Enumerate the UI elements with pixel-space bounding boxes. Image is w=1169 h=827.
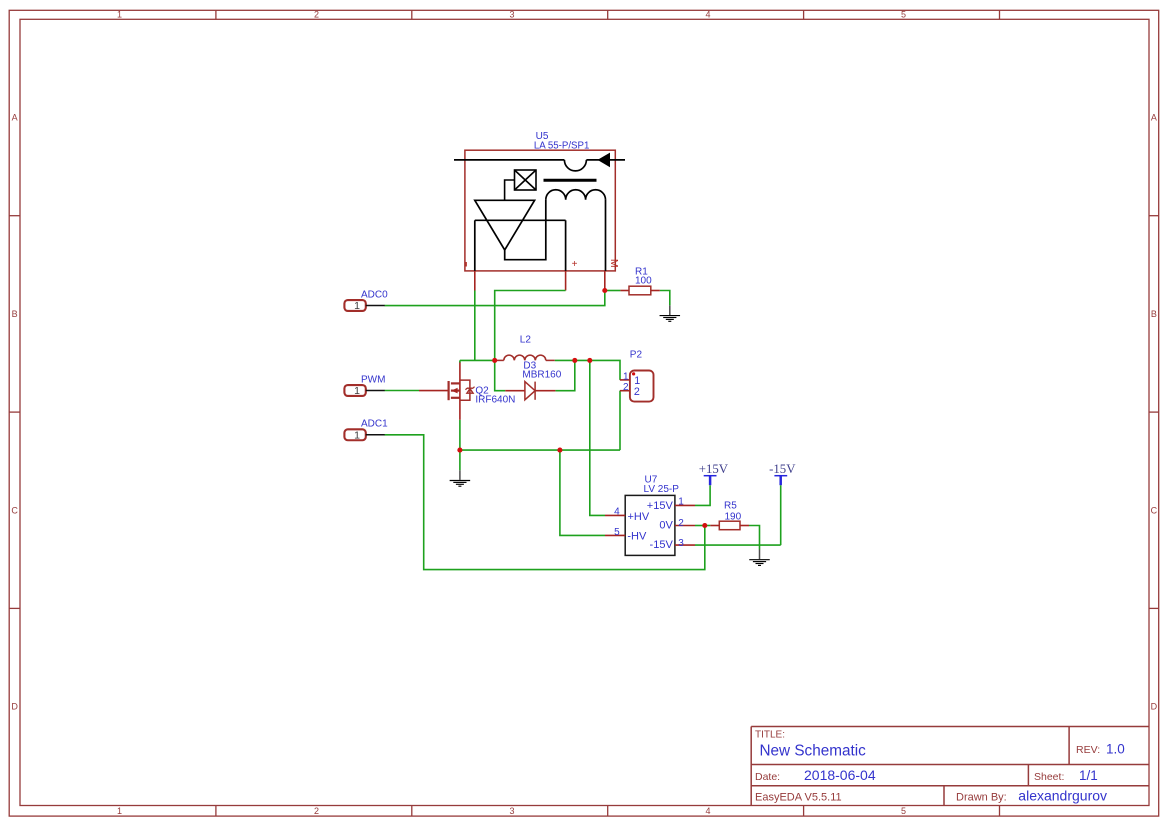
svg-text:R5: R5: [724, 501, 737, 512]
svg-text:4: 4: [705, 806, 710, 816]
svg-text:-HV: -HV: [627, 531, 647, 543]
svg-text:LV 25-P: LV 25-P: [644, 484, 680, 495]
svg-text:2: 2: [623, 382, 629, 393]
svg-text:IRF640N: IRF640N: [475, 395, 515, 406]
svg-text:1.0: 1.0: [1106, 742, 1125, 757]
svg-text:C: C: [11, 505, 18, 515]
svg-text:D: D: [11, 702, 18, 712]
svg-text:2: 2: [314, 806, 319, 816]
svg-text:1/1: 1/1: [1079, 768, 1098, 783]
svg-text:3: 3: [509, 806, 514, 816]
svg-text:+: +: [572, 259, 578, 270]
svg-text:PWM: PWM: [361, 374, 385, 385]
svg-text:100: 100: [635, 275, 652, 286]
svg-text:5: 5: [901, 806, 906, 816]
svg-text:1: 1: [354, 429, 360, 441]
svg-text:A: A: [1151, 113, 1157, 123]
svg-text:5: 5: [614, 527, 620, 538]
svg-text:4: 4: [705, 9, 710, 19]
svg-text:B: B: [12, 309, 18, 319]
svg-text:C: C: [1151, 505, 1158, 515]
svg-text:REV:: REV:: [1076, 744, 1100, 756]
svg-text:+15V: +15V: [699, 462, 729, 476]
svg-text:P2: P2: [630, 350, 643, 361]
svg-text:MBR160: MBR160: [522, 369, 561, 380]
svg-text:M: M: [608, 259, 620, 268]
svg-text:3: 3: [509, 9, 514, 19]
svg-text:0V: 0V: [659, 520, 673, 532]
svg-text:2018-06-04: 2018-06-04: [804, 767, 876, 783]
svg-text:EasyEDA V5.5.11: EasyEDA V5.5.11: [755, 792, 842, 804]
svg-text:Date:: Date:: [755, 771, 780, 783]
svg-text:2: 2: [634, 386, 640, 398]
svg-text:1: 1: [678, 496, 684, 507]
svg-text:4: 4: [614, 507, 620, 518]
svg-text:ADC0: ADC0: [361, 289, 388, 300]
svg-text:ADC1: ADC1: [361, 419, 388, 430]
svg-text:190: 190: [725, 511, 742, 522]
svg-text:1: 1: [354, 385, 360, 397]
svg-text:LA 55-P/SP1: LA 55-P/SP1: [534, 140, 589, 151]
svg-text:1: 1: [623, 372, 629, 383]
svg-text:3: 3: [678, 538, 684, 549]
svg-text:1: 1: [117, 806, 122, 816]
svg-text:Drawn By:: Drawn By:: [956, 792, 1007, 804]
svg-text:+15V: +15V: [647, 500, 674, 512]
svg-text:A: A: [12, 113, 18, 123]
svg-text:B: B: [1151, 309, 1157, 319]
svg-text:Sheet:: Sheet:: [1034, 771, 1064, 783]
svg-text:2: 2: [678, 518, 684, 529]
svg-text:D: D: [1151, 702, 1158, 712]
svg-text:-15V: -15V: [650, 539, 674, 551]
svg-text:2: 2: [314, 9, 319, 19]
svg-text:TITLE:: TITLE:: [755, 730, 785, 741]
svg-text:-15V: -15V: [769, 462, 796, 476]
svg-text:1: 1: [354, 300, 360, 312]
svg-text:New Schematic: New Schematic: [760, 743, 867, 760]
svg-text:+HV: +HV: [628, 511, 650, 523]
svg-text:5: 5: [901, 9, 906, 19]
svg-text:L2: L2: [520, 335, 532, 346]
svg-text:1: 1: [117, 9, 122, 19]
svg-text:alexandrgurov: alexandrgurov: [1018, 788, 1107, 804]
